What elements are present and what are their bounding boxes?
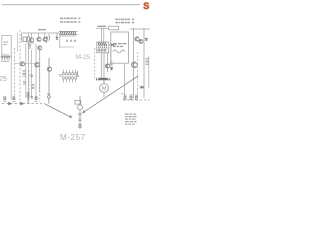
diode D5	[56, 37, 58, 39]
resistor R12	[28, 37, 30, 41]
wire connector drop	[59, 33, 61, 48]
label text near box	[98, 26, 107, 27]
transistor Q2	[37, 37, 41, 41]
capacitor C11 cluster	[27, 93, 33, 104]
transistor Q8	[135, 37, 139, 41]
dashed wire left of CN5	[94, 48, 96, 78]
transistor Q1	[30, 38, 34, 42]
right wire C	[148, 56, 150, 88]
wire drops	[29, 33, 57, 100]
svg-text:M-25: M-25	[76, 54, 91, 61]
connector CN5 box	[97, 42, 109, 53]
notes text block bottom-right	[125, 114, 137, 125]
capacitor C5 electrolytic	[122, 94, 127, 100]
transistor Q9	[139, 40, 143, 44]
CN5 hatch row 2	[98, 47, 107, 49]
wire stub	[21, 33, 23, 42]
capacitor C7	[3, 97, 6, 102]
capacitor C3	[59, 75, 61, 76]
wires CN5 bottom	[101, 53, 107, 78]
svg-text:25: 25	[0, 76, 7, 83]
VR label text	[113, 43, 127, 47]
transistor Q6	[47, 58, 51, 93]
right bus wire B	[143, 28, 145, 98]
svg-text:S: S	[143, 1, 149, 11]
wire pair top	[102, 28, 104, 42]
motor wire stub	[103, 92, 105, 97]
VR waveform	[113, 50, 125, 53]
CN6 dark pads	[99, 78, 107, 79]
label inside PANEL	[4, 42, 9, 46]
capacitor C8	[13, 97, 16, 102]
diode D11	[111, 68, 113, 70]
box VR center-right	[111, 32, 129, 63]
component box top-right	[109, 26, 119, 30]
transistor Q4	[38, 46, 42, 50]
wire box to bus	[130, 28, 151, 30]
resistor R16	[110, 62, 113, 66]
wire below CN9	[60, 46, 74, 48]
capacitor C9	[35, 97, 38, 102]
transistor Q5	[20, 62, 24, 66]
diode D9 on rail	[9, 102, 11, 104]
svg-text:M-257: M-257	[60, 133, 86, 142]
capacitor C12 cluster	[48, 93, 51, 103]
callout arrow left	[45, 104, 71, 117]
dash-dot boundary wire	[13, 48, 15, 98]
diode D6	[111, 44, 113, 46]
box PANEL left	[2, 36, 11, 57]
resistor R17	[146, 59, 149, 65]
top rail wire	[22, 32, 60, 34]
connector CN9 pins	[60, 31, 75, 34]
wire box to rail	[124, 64, 126, 100]
diode D8	[140, 86, 144, 88]
wire mid	[26, 42, 35, 44]
capacitor C10 electrolytic	[135, 95, 138, 100]
label text block top-right	[116, 19, 135, 24]
test point column	[75, 96, 83, 129]
transistor Q11	[35, 63, 39, 67]
wire CN5 right	[109, 44, 116, 46]
jack J1	[46, 35, 50, 44]
left-center bus wires	[26, 44, 40, 98]
dashed boundary wire 2	[28, 70, 30, 103]
connector CN4 pins	[62, 70, 76, 83]
resistor R18	[23, 82, 26, 85]
logo S	[143, 1, 149, 11]
connector CN9 lower ticks	[61, 34, 75, 37]
arrowhead left	[69, 115, 72, 118]
wire CN5 down	[110, 45, 112, 64]
CN5 hatch	[98, 43, 107, 47]
resistor R14	[23, 71, 26, 77]
transistor Q10	[131, 62, 137, 68]
resistor R11	[23, 37, 27, 42]
wire stub left	[17, 33, 19, 52]
transistor Q3	[43, 37, 47, 41]
diode array D1-D4	[1, 54, 10, 62]
connector CN9 top-center	[59, 31, 78, 34]
wire row	[14, 63, 35, 65]
arrowhead right	[82, 110, 85, 113]
center column dashed wire	[39, 58, 41, 102]
right bus wire A	[133, 28, 135, 98]
diode D7	[145, 38, 147, 40]
motor M1	[100, 80, 109, 93]
wire left box down	[10, 56, 12, 100]
capacitor C4	[76, 71, 79, 77]
resistor R15	[32, 85, 35, 89]
dashed ground rail left	[2, 103, 45, 105]
callout arrow right	[84, 76, 138, 112]
right dashed wire	[137, 52, 139, 96]
wire into box	[96, 27, 109, 29]
header rule	[2, 4, 140, 6]
CN5 pin circles	[98, 49, 106, 51]
diode D10 on rail	[21, 102, 23, 104]
resistor R13	[28, 45, 31, 49]
capacitor C6 electrolytic	[130, 95, 133, 100]
transistor Q7	[105, 64, 109, 68]
dashed ground rail right	[123, 99, 150, 101]
label text block top-center	[60, 18, 80, 23]
connector CN6 pins above motor	[96, 78, 111, 80]
connector CN9 pin labels	[66, 40, 76, 42]
capacitor C1	[30, 75, 33, 77]
dashed net line left	[19, 30, 21, 103]
label text above left circuit	[38, 29, 46, 30]
svg-text:M: M	[102, 86, 107, 92]
